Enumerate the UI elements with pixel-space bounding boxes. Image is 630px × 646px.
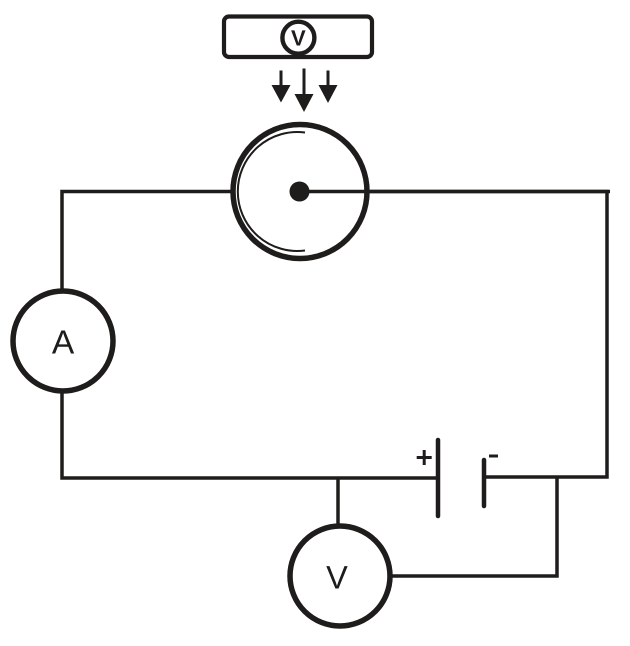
svg-text:V: V — [291, 26, 306, 51]
svg-text:A: A — [52, 325, 75, 362]
svg-text:V: V — [326, 560, 348, 596]
